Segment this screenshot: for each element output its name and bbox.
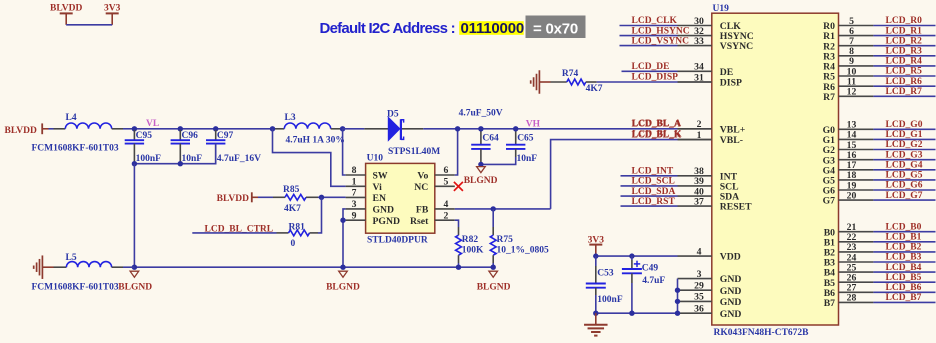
svg-text:GND: GND	[720, 286, 742, 297]
wire R74 to DISP	[597, 81, 712, 83]
svg-text:33: 33	[694, 36, 704, 47]
svg-text:4.7uF_50V: 4.7uF_50V	[459, 108, 503, 118]
svg-text:10_1%_0805: 10_1%_0805	[497, 245, 550, 255]
svg-text:7: 7	[352, 188, 357, 199]
pin 9 R4 U19	[823, 56, 873, 72]
svg-text:LCD_R4: LCD_R4	[886, 57, 923, 67]
svg-text:R82: R82	[462, 235, 479, 245]
pin 17 G4 U19	[823, 160, 874, 176]
wire net LCD_B6	[873, 291, 935, 293]
svg-text:100nF: 100nF	[136, 154, 162, 164]
svg-text:0: 0	[291, 239, 296, 249]
svg-text:C96: C96	[182, 131, 199, 141]
pin 30 CLK U19	[678, 16, 742, 32]
pin 18 G5 U19	[823, 170, 874, 186]
node VL/C95	[132, 126, 137, 131]
svg-text:BLGND: BLGND	[326, 282, 360, 292]
wire net LCD_R3	[873, 55, 935, 57]
svg-text:LCD_B0: LCD_B0	[886, 222, 922, 232]
wire net LCD_G2	[873, 149, 935, 151]
wire L3 right to SW pin	[343, 129, 346, 175]
resistor R82 100K	[456, 227, 484, 263]
svg-text:R74: R74	[562, 69, 579, 79]
net label LCD_B3	[886, 253, 922, 263]
node C49 bottom	[629, 311, 634, 316]
pin 8 SW U10	[346, 165, 388, 182]
resistor R74 4K7	[551, 69, 603, 94]
svg-text:9: 9	[352, 210, 357, 221]
svg-text:LCD_G1: LCD_G1	[886, 130, 923, 140]
wire Rset to R82	[455, 220, 459, 227]
svg-text:Vo: Vo	[417, 171, 428, 182]
ground earth (3V3 filter)	[584, 313, 608, 335]
svg-text:C97: C97	[217, 131, 234, 141]
pin 37 RESET U19	[678, 196, 753, 212]
net label LCD_R6	[886, 77, 923, 87]
wire net LCD_G4	[873, 169, 935, 171]
wire VL rail	[134, 128, 272, 130]
svg-text:L5: L5	[66, 253, 77, 263]
wire D5 to VH rail	[423, 128, 712, 130]
svg-text:LCD_BL_A: LCD_BL_A	[632, 120, 681, 130]
svg-text:8: 8	[352, 165, 357, 176]
wire net LCD_R0	[873, 25, 935, 27]
svg-text:GND: GND	[720, 274, 742, 285]
net label LCD_R2	[886, 36, 923, 46]
net label LCD_G4	[886, 161, 923, 171]
wire net LCD_INT	[621, 175, 678, 177]
svg-text:Default I2C Address :: Default I2C Address :	[320, 20, 455, 37]
pin 26 B5 U19	[824, 273, 874, 289]
pin 2 VBL+ U19	[678, 119, 746, 135]
wire net LCD_VSYNC	[620, 45, 678, 47]
svg-text:1: 1	[352, 176, 357, 187]
net label LCD_DE	[632, 62, 670, 72]
pin 5 R0 U19	[823, 16, 873, 32]
svg-text:VL: VL	[146, 119, 159, 129]
wire L5 to rail	[123, 266, 134, 268]
pin 16 G3 U19	[823, 150, 874, 166]
resistor R81 0	[277, 222, 319, 249]
wire net LCD_B1	[873, 241, 935, 243]
pin 14 G1 U19	[823, 130, 874, 146]
wire ground rail BLGND	[134, 266, 493, 268]
wire C95 bottom to ground rail	[133, 164, 135, 268]
wire L3 left to Vi pin	[273, 129, 346, 187]
svg-text:12: 12	[847, 87, 857, 98]
wire net LCD_R4	[873, 65, 935, 67]
svg-text:SW: SW	[373, 171, 388, 182]
svg-text:4K7: 4K7	[284, 204, 301, 214]
svg-text:Rset: Rset	[410, 216, 429, 227]
svg-text:R81: R81	[289, 222, 306, 232]
net label LCD_R7	[886, 87, 923, 97]
svg-text:U19: U19	[713, 4, 730, 14]
svg-text:34: 34	[694, 62, 704, 73]
svg-text:GND: GND	[373, 205, 395, 216]
net label LCD_INT	[632, 167, 674, 177]
svg-text:FCM1608KF-601T03: FCM1608KF-601T03	[32, 144, 119, 154]
svg-text:DE: DE	[720, 67, 733, 78]
svg-text:29: 29	[694, 281, 704, 292]
svg-text:STPS1L40M: STPS1L40M	[388, 147, 440, 157]
svg-text:BLVDD: BLVDD	[5, 126, 38, 136]
svg-text:31: 31	[694, 72, 704, 83]
wire net LCD_SDA	[621, 195, 678, 197]
svg-text:LCD_SCL: LCD_SCL	[632, 177, 675, 187]
svg-text:6: 6	[444, 165, 449, 176]
net label LCD_G0	[886, 120, 923, 130]
net label LCD_RST	[632, 197, 676, 207]
pin 36 GND U19	[678, 304, 742, 320]
node gnd bracket 35	[675, 299, 680, 304]
svg-text:RESET: RESET	[720, 202, 752, 213]
net label LCD_R0	[886, 16, 923, 26]
svg-text:BLVDD: BLVDD	[50, 4, 83, 14]
svg-text:LCD_R0: LCD_R0	[886, 16, 923, 26]
wire net LCD_R6	[873, 85, 935, 87]
svg-text:U10: U10	[367, 154, 384, 164]
pin 23 B2 U19	[824, 242, 874, 258]
pin 3 GND U19	[678, 269, 742, 285]
ground BLGND (under C64)	[464, 167, 498, 187]
wire net LCD_G5	[873, 179, 935, 181]
pin 5 NC U10	[414, 176, 455, 193]
net label LCD_B1	[886, 233, 922, 243]
port BLVDD (left)	[5, 123, 49, 135]
net label LCD_B5	[886, 273, 922, 283]
wire net LCD_B5	[873, 281, 935, 283]
pin 1 Vi U10	[346, 176, 383, 193]
svg-text:28: 28	[847, 293, 857, 304]
pin 13 G0 U19	[823, 120, 874, 136]
pin 19 G6 U19	[823, 180, 874, 196]
svg-text:LCD_B5: LCD_B5	[886, 273, 922, 283]
net label LCD_SCL	[632, 177, 675, 187]
svg-text:LCD_SDA: LCD_SDA	[632, 187, 676, 197]
power port BLVDD (top-left)	[50, 4, 83, 25]
svg-text:LCD_CLK: LCD_CLK	[632, 16, 678, 26]
svg-text:C49: C49	[642, 264, 659, 274]
svg-text:37: 37	[694, 196, 704, 207]
capacitor C64 4.7uF_50V	[459, 108, 503, 164]
node 3V3/C53	[593, 253, 598, 258]
wire net LCD_G0	[873, 128, 935, 130]
svg-text:LCD_B1: LCD_B1	[886, 233, 922, 243]
net label LCD_B0	[886, 222, 922, 232]
pin 11 R6 U19	[823, 77, 873, 93]
svg-text:4: 4	[444, 199, 449, 210]
svg-text:FB: FB	[416, 205, 429, 216]
svg-text:LCD_DISP: LCD_DISP	[632, 73, 679, 83]
wire net LCD_G6	[873, 189, 935, 191]
net label LCD_G6	[886, 181, 923, 191]
svg-text:LCD_B7: LCD_B7	[886, 293, 922, 303]
capacitor C96	[171, 130, 203, 164]
pin 33 VSYNC U19	[678, 36, 754, 52]
node FB/R75	[491, 206, 496, 211]
svg-text:GND: GND	[720, 309, 742, 320]
node C97 top	[213, 126, 218, 131]
svg-text:BLVDD: BLVDD	[217, 194, 250, 204]
pin 12 R7 U19	[823, 87, 873, 103]
node C96 top	[178, 126, 183, 131]
svg-text:100nF: 100nF	[597, 295, 623, 305]
wire net LCD_DE	[622, 70, 678, 72]
net label LCD_G2	[886, 140, 923, 150]
svg-text:L3: L3	[285, 113, 296, 123]
svg-text:G7: G7	[823, 196, 836, 207]
svg-text:VDD: VDD	[720, 252, 741, 263]
node L3 left	[270, 126, 275, 131]
svg-text:4: 4	[697, 246, 702, 257]
wire U10 GND/PGND to ground rail	[343, 209, 346, 267]
wire net LCD_B0	[873, 231, 935, 233]
wire R75 to ground rail	[492, 263, 494, 267]
wire net LCD_CLK	[620, 25, 678, 27]
svg-text:BLGND: BLGND	[464, 176, 498, 186]
wire net LCD_R1	[873, 35, 935, 37]
pin 35 GND U19	[678, 292, 742, 308]
title Default I2C Address	[320, 16, 586, 39]
svg-text:R85: R85	[283, 185, 300, 195]
net label LCD_BL_K	[632, 130, 682, 140]
svg-text:VSYNC: VSYNC	[720, 41, 753, 52]
node C64 top	[478, 126, 483, 131]
pin 34 DE U19	[678, 62, 734, 78]
wire net LCD_B7	[873, 301, 935, 303]
capacitor C95	[125, 130, 161, 164]
wire R85 to EN	[318, 196, 346, 198]
ground BLGND (left)	[118, 271, 152, 292]
svg-text:Vi: Vi	[373, 182, 383, 193]
inductor L5	[32, 253, 124, 293]
op-amp U10 STLD40DPUR body	[366, 154, 435, 246]
pin 6 R1 U19	[823, 26, 873, 42]
pin 25 B4 U19	[824, 262, 874, 278]
svg-text:LCD_INT: LCD_INT	[632, 167, 674, 177]
wire R81 up to EN node	[318, 197, 322, 233]
wire net LCD_R2	[873, 45, 935, 47]
svg-text:LCD_B4: LCD_B4	[886, 263, 922, 273]
svg-text:LCD_G3: LCD_G3	[886, 150, 923, 160]
power port 3V3 (VDD)	[588, 235, 605, 256]
svg-text:LCD_RST: LCD_RST	[632, 197, 676, 207]
resistor R85 4K7	[258, 185, 318, 214]
pin 31 DISP U19	[678, 72, 742, 88]
svg-text:B7: B7	[824, 298, 835, 309]
wire caps bottom rail	[134, 144, 215, 164]
wire L4 to node VL	[123, 128, 134, 130]
net label LCD_G3	[886, 150, 923, 160]
capacitor C53 100nF	[586, 256, 623, 313]
svg-text:VBL+: VBL+	[720, 124, 746, 135]
svg-text:LCD_R5: LCD_R5	[886, 67, 923, 77]
ground BLGND (R75)	[477, 271, 511, 292]
svg-text:R7: R7	[823, 92, 835, 103]
net label LCD_VSYNC	[632, 36, 690, 46]
wire net LCD_R5	[873, 75, 935, 77]
pin 7 EN U10	[346, 188, 386, 205]
node PGND junction	[340, 218, 345, 223]
svg-text:LCD_G5: LCD_G5	[886, 171, 923, 181]
svg-text:LCD_BL_K: LCD_BL_K	[632, 130, 682, 140]
net label LCD_R1	[886, 26, 923, 36]
svg-text:R75: R75	[497, 235, 514, 245]
svg-text:5: 5	[444, 176, 449, 187]
wire GND bracket	[677, 279, 679, 314]
svg-text:10nF: 10nF	[517, 154, 538, 164]
svg-text:EN: EN	[373, 193, 386, 204]
inductor L4	[32, 113, 124, 153]
wire BLVDD to 3V3	[66, 24, 112, 26]
svg-text:LCD_R7: LCD_R7	[886, 87, 923, 97]
wire net LCD_G3	[873, 159, 935, 161]
pin 24 B3 U19	[824, 252, 874, 268]
svg-text:BLGND: BLGND	[118, 282, 152, 292]
net label LCD_DISP	[632, 73, 679, 83]
wire net LCD_B3	[873, 261, 935, 263]
pin 20 G7 U19	[823, 190, 874, 206]
node C64 bottom	[478, 162, 483, 167]
wire net LCD_R7	[873, 95, 935, 97]
pin 9 PGND U10	[346, 210, 400, 227]
net label LCD_BL_A	[632, 119, 681, 129]
wire VDD ground rail	[596, 312, 678, 314]
net label LCD_R5	[886, 67, 923, 77]
pin 3 GND U10	[346, 199, 394, 216]
node L5/rail	[132, 265, 137, 270]
svg-text:3: 3	[352, 199, 357, 210]
pin 27 B6 U19	[824, 283, 874, 299]
wire net LCD_RST	[621, 205, 678, 207]
svg-text:NC: NC	[414, 182, 428, 193]
pin 22 B1 U19	[824, 232, 874, 248]
net label LCD_G5	[886, 171, 923, 181]
svg-text:DISP: DISP	[720, 78, 742, 89]
svg-text:10nF: 10nF	[182, 154, 203, 164]
pin 1 VBL- U19	[678, 130, 743, 146]
svg-text:100K: 100K	[462, 245, 484, 255]
svg-text:LCD_R2: LCD_R2	[886, 36, 923, 46]
net label LCD_B4	[886, 263, 922, 273]
wire R82 to ground rail	[458, 263, 460, 267]
node gnd bracket rail	[675, 311, 680, 316]
wire net LCD_B4	[873, 271, 935, 273]
svg-text:C65: C65	[517, 134, 534, 144]
pin 8 R3 U19	[823, 46, 873, 62]
net label LCD_SDA	[632, 187, 676, 197]
net label LCD_G7	[886, 191, 923, 201]
net label LCD_CLK	[632, 16, 678, 26]
net label LCD_B7	[886, 293, 922, 303]
svg-text:C95: C95	[136, 131, 153, 141]
net label LCD_R3	[886, 47, 923, 57]
pin 15 G2 U19	[823, 140, 874, 156]
pin 4 VDD U19	[678, 246, 741, 262]
net label LCD_B6	[886, 283, 922, 293]
pin 10 R5 U19	[823, 66, 873, 82]
net label LCD_G1	[886, 130, 923, 140]
node L3 right	[340, 126, 345, 131]
wire FB net	[455, 208, 551, 210]
node C49 top	[629, 253, 634, 258]
node R82/rail	[456, 265, 461, 270]
pin 39 SCL U19	[678, 176, 740, 192]
svg-text:4.7uH 1A 30%: 4.7uH 1A 30%	[286, 135, 345, 145]
diode D5 STPS1L40M	[364, 109, 440, 157]
no-connect X on U10 pin 5	[454, 182, 463, 191]
svg-text:STLD40DPUR: STLD40DPUR	[367, 236, 428, 246]
power port 3V3 (top-left)	[104, 4, 121, 25]
wire net LCD_SCL	[621, 185, 678, 187]
wire C65 bottom to C64 bottom	[481, 157, 516, 164]
node C65 top	[513, 126, 518, 131]
svg-text:LCD_B2: LCD_B2	[886, 243, 922, 253]
net label LCD_R4	[886, 57, 923, 67]
svg-text:LCD_HSYNC: LCD_HSYNC	[632, 26, 690, 36]
svg-text:LCD_G0: LCD_G0	[886, 120, 923, 130]
svg-text:35: 35	[694, 292, 704, 303]
ground earth (R74)	[531, 70, 551, 94]
svg-text:VBL-: VBL-	[720, 135, 743, 146]
node C53 bottom	[593, 311, 598, 316]
svg-text:2: 2	[697, 119, 702, 130]
wire BLVDD to L4	[49, 128, 54, 130]
svg-text:20: 20	[847, 190, 857, 201]
pin 40 SDA U19	[678, 186, 740, 202]
svg-text:36: 36	[694, 304, 704, 315]
net label LCD_BL_CTRL	[192, 224, 276, 234]
wire net LCD_G1	[873, 138, 935, 140]
net label LCD_BL_K	[632, 130, 682, 140]
pin 7 R2 U19	[823, 36, 873, 52]
svg-text:LCD_R3: LCD_R3	[886, 47, 923, 57]
inductor L3	[273, 113, 345, 145]
node gnd bracket 29	[675, 288, 680, 293]
chip U19 RK043FN48H-CT672B body	[712, 4, 839, 338]
capacitor C49 4.7uF (polarized)	[622, 256, 665, 313]
node EN junction	[319, 195, 324, 200]
wire L3 to D5	[343, 128, 365, 130]
ground earth (L5)	[34, 255, 54, 279]
svg-text:FCM1608KF-601T03: FCM1608KF-601T03	[32, 283, 119, 293]
svg-text:LCD_G6: LCD_G6	[886, 181, 923, 191]
svg-text:1: 1	[697, 130, 702, 141]
net label LCD_B2	[886, 243, 922, 253]
wire 3V3 to VDD pin	[596, 255, 678, 257]
port BLVDD (R85)	[217, 192, 258, 204]
pin 32 HSYNC U19	[678, 26, 754, 42]
svg-text:L4: L4	[66, 113, 77, 123]
svg-text:LCD_B3: LCD_B3	[886, 253, 922, 263]
svg-text:LCD_DE: LCD_DE	[632, 62, 670, 72]
svg-text:LCD_R1: LCD_R1	[886, 26, 923, 36]
svg-text:PGND: PGND	[373, 216, 400, 227]
svg-text:3V3: 3V3	[104, 4, 121, 14]
net label VH	[526, 119, 541, 129]
wire FB up to LCD_BL_K	[551, 140, 712, 209]
node Vo/VH	[455, 126, 460, 131]
ground BLGND (U10)	[326, 271, 360, 292]
svg-text:= 0x70: = 0x70	[533, 20, 578, 37]
node C96 bottom	[178, 161, 183, 166]
svg-text:BLGND: BLGND	[477, 282, 511, 292]
svg-text:4.7uF: 4.7uF	[642, 276, 665, 286]
svg-text:3: 3	[697, 269, 702, 280]
svg-text:C64: C64	[482, 134, 499, 144]
svg-text:D5: D5	[387, 109, 399, 119]
